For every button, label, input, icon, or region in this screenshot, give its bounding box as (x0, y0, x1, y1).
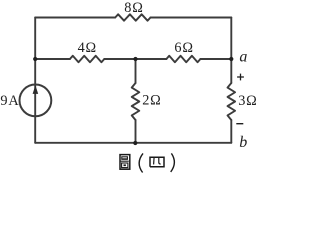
svg-text:4Ω: 4Ω (78, 40, 97, 56)
resistor 2Ω (middle branch) (132, 83, 140, 120)
svg-text:6Ω: 6Ω (174, 40, 193, 56)
svg-text:b: b (239, 134, 247, 151)
caption close paren (171, 153, 175, 172)
wire top-left horizontal (35, 17, 115, 19)
svg-text:a: a (239, 49, 247, 66)
wire middle vertical upper (135, 59, 137, 83)
wire right vertical lower (230, 120, 232, 143)
svg-text:2Ω: 2Ω (142, 93, 161, 109)
caption glyph si (four) (150, 157, 164, 167)
svg-text:9A: 9A (0, 93, 19, 109)
wire middle row center (104, 58, 166, 60)
node junction dot middle (133, 57, 137, 61)
resistor 6Ω (middle row right) (166, 56, 200, 62)
wire middle vertical lower (135, 120, 137, 143)
node a junction dot (229, 57, 233, 61)
caption open paren (139, 153, 143, 172)
wire middle row left (35, 58, 70, 60)
current source 9A circle (20, 85, 52, 117)
resistor 8Ω (top branch) (115, 14, 150, 20)
polarity plus sign (237, 74, 244, 81)
svg-text:8Ω: 8Ω (124, 0, 143, 16)
current source arrowhead (33, 85, 39, 94)
caption glyph tu (figure) (120, 155, 130, 170)
wire left vertical (34, 18, 36, 143)
wire middle row right (200, 58, 231, 60)
wire bottom horizontal (35, 142, 231, 144)
polarity minus sign (236, 123, 243, 125)
svg-text:3Ω: 3Ω (238, 93, 257, 109)
wire top-right horizontal (151, 17, 232, 19)
node junction dot left (33, 57, 37, 61)
wire right vertical upper (230, 18, 232, 84)
resistor 3Ω (right branch) (228, 83, 236, 120)
node junction dot bottom (133, 141, 137, 145)
resistor 4Ω (middle row left) (70, 56, 104, 62)
